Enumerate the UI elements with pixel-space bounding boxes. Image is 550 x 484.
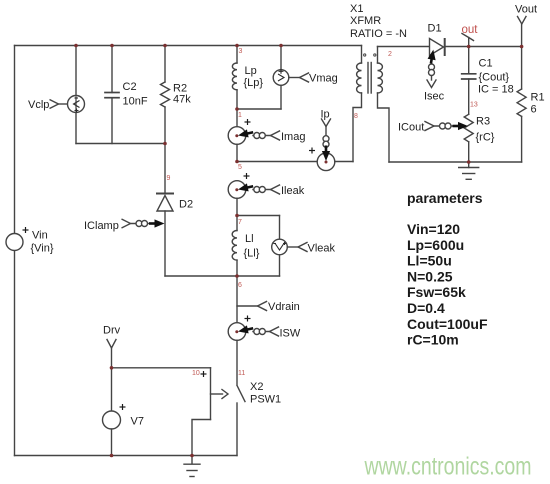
svg-text:2: 2 [388, 51, 392, 58]
inductor Ll top lead [236, 216, 238, 231]
current probe ICout icon [425, 122, 434, 131]
svg-text:Cout=100uF: Cout=100uF [407, 316, 488, 332]
svg-text:Isec: Isec [424, 91, 445, 103]
probe Vclp attach [50, 100, 59, 109]
wire secondary bottom [378, 93, 390, 162]
resistor R2 bottom lead [164, 107, 166, 144]
svg-text:Vdrain: Vdrain [268, 301, 300, 313]
svg-text:8: 8 [354, 113, 358, 120]
current sensor ISW circle [228, 323, 246, 341]
probe Vclp V-glyph [75, 97, 77, 112]
probe Vleak attach [287, 246, 298, 248]
current probe ISW icon [253, 331, 270, 333]
junction top rail / C2 [110, 44, 114, 48]
svg-text:13: 13 [470, 102, 478, 109]
svg-text:3: 3 [239, 48, 243, 55]
resistor R2 zigzag [161, 82, 170, 107]
svg-text:X2: X2 [250, 381, 263, 393]
wire bottom rail [15, 455, 238, 457]
wire top rail [15, 45, 362, 47]
svg-text:10: 10 [192, 370, 200, 377]
svg-text:Drv: Drv [103, 325, 121, 337]
resistor R1 bottom lead [521, 116, 523, 162]
svg-text:Ileak: Ileak [281, 185, 305, 197]
diode D1 cathode bar [444, 39, 446, 55]
svg-text:1: 1 [238, 112, 242, 119]
svg-text:out: out [462, 24, 479, 36]
wire D1 to out [445, 46, 522, 48]
transformer X1 secondary winding [378, 63, 383, 93]
junction node out / C1 [467, 45, 471, 49]
switch X2 control arrow [211, 393, 223, 395]
svg-text:47k: 47k [173, 94, 191, 106]
current probe Ileak icon [253, 189, 271, 191]
inductor Lp top lead [236, 46, 238, 64]
junction bottom right rail / R3 ground [467, 160, 471, 164]
svg-text:6: 6 [531, 104, 537, 116]
switch X2 contact [237, 386, 245, 402]
svg-text:Vin: Vin [32, 230, 48, 242]
sensor Imag center dot [235, 134, 238, 137]
current sensor Ip circle [317, 153, 335, 171]
wire Ileak to node7 [236, 198, 238, 215]
svg-text:{Cout}: {Cout} [479, 72, 510, 84]
svg-text:ICout: ICout [398, 122, 424, 134]
current probe IClamp arrow [155, 219, 165, 227]
probe Vclp circle [68, 96, 85, 113]
junction node 1 [235, 107, 239, 111]
junction top rail / R2 [163, 44, 167, 48]
svg-text:R3: R3 [476, 116, 490, 128]
svg-text:Ll=50u: Ll=50u [407, 253, 452, 269]
inductor Lp bottom lead [236, 90, 238, 109]
wire switch bottom [236, 403, 238, 456]
resistor R3 bottom lead [468, 142, 470, 162]
probe Drv [107, 340, 116, 349]
junction node 6 [235, 274, 239, 278]
probe Vmag attach [289, 77, 300, 79]
wire bottom right rail [389, 161, 522, 163]
inductor Lp coil [232, 63, 237, 90]
svg-text:7: 7 [238, 219, 242, 226]
svg-text:C1: C1 [479, 58, 493, 70]
wire node6 horizontal [237, 275, 280, 277]
junction top rail / Vmag loop [279, 44, 283, 48]
svg-text:X1: X1 [350, 3, 363, 15]
probe Vmag circle [273, 70, 289, 86]
wire Drv down [111, 348, 113, 411]
sensor ISW center dot [235, 330, 238, 333]
wire Ip right [335, 161, 353, 163]
svg-text:D=0.4: D=0.4 [407, 300, 445, 316]
wire node6 down [236, 276, 238, 322]
svg-text:{Lp}: {Lp} [244, 77, 264, 89]
svg-text:V7: V7 [131, 416, 144, 428]
svg-text:Vmag: Vmag [309, 73, 338, 85]
probe Vleak circle [272, 239, 288, 255]
transformer X1 primary winding [357, 63, 362, 93]
voltage source V1 Vin [6, 234, 23, 251]
wire V7 bottom [111, 429, 113, 456]
probe Vmag V-glyph [278, 74, 284, 81]
junction node 5 [235, 160, 239, 164]
svg-text:D2: D2 [179, 199, 193, 211]
probe Vleak V-glyph [276, 244, 284, 250]
capacitor C1 top lead [468, 47, 470, 74]
capacitor C2 top lead [111, 46, 113, 93]
wire secondary top to D1 [378, 46, 430, 48]
inductor Ll coil [232, 231, 237, 261]
wire out rail down to R1 [521, 47, 523, 90]
wire Imag to node5 [236, 144, 238, 161]
wire Vclp branch vertical [75, 46, 77, 144]
ground right [468, 162, 470, 168]
probe Vleak loop top [279, 216, 281, 240]
node numbers [167, 48, 478, 377]
current sensor Imag arrow [237, 128, 254, 139]
svg-text:PSW1: PSW1 [250, 394, 281, 406]
plus V7 [120, 406, 126, 408]
svg-text:C2: C2 [123, 81, 137, 93]
svg-text:IClamp: IClamp [84, 220, 119, 232]
svg-text:Lp: Lp [245, 65, 257, 77]
probe Vmag loop top [280, 46, 282, 71]
junction bottom rail / V7 [110, 454, 114, 458]
wire primary bottom [353, 93, 362, 162]
probe Vmag loop bottom [280, 85, 282, 109]
wire D2 anode down [164, 211, 166, 276]
svg-text:www.cntronics.com: www.cntronics.com [364, 453, 532, 481]
svg-text:11: 11 [238, 370, 245, 377]
svg-text:RATIO = -N: RATIO = -N [350, 28, 407, 40]
current sensor Ip arrow [322, 151, 330, 161]
diode D2 triangle [157, 196, 173, 212]
svg-text:5: 5 [238, 164, 242, 171]
resistor R3 zigzag [464, 114, 473, 142]
resistor R1 zigzag [517, 89, 526, 116]
plus ISW [245, 318, 251, 320]
transformer X1 phase dot secondary [374, 54, 376, 56]
wire clamp bottom [76, 143, 165, 145]
transformer X1 phase dot primary [364, 54, 366, 56]
capacitor C1 bottom lead [468, 79, 470, 114]
node out marker [468, 38, 470, 47]
current sensor ISW arrow [237, 324, 254, 335]
junction node 7 [235, 214, 239, 218]
voltage source V7 circle [103, 411, 121, 429]
junction node 3 top rail / Lp [235, 44, 239, 48]
wire control box bottom jog [192, 420, 211, 464]
plus Ip [309, 150, 315, 152]
bold arrows group [149, 49, 468, 336]
probe Vdrain attach [237, 305, 258, 307]
current probe Isec icon [431, 62, 433, 80]
transformer X1 primary top lead [361, 46, 363, 64]
plus Vin [23, 229, 29, 231]
plus X2 control [201, 373, 207, 375]
svg-text:N=0.25: N=0.25 [407, 268, 453, 284]
current probe ICout arrow [458, 122, 468, 130]
svg-text:ISW: ISW [280, 328, 301, 340]
plus Ileak [244, 175, 250, 177]
svg-text:Ip: Ip [321, 109, 330, 121]
svg-text:D1: D1 [428, 23, 442, 35]
svg-text:Vin=120: Vin=120 [407, 221, 460, 237]
svg-text:rC=10m: rC=10m [407, 332, 459, 348]
svg-text:Ll: Ll [245, 233, 254, 245]
resistor R2 top lead [164, 46, 166, 83]
svg-text:Imag: Imag [281, 131, 305, 143]
wire control box top [112, 367, 211, 369]
transformer X1 secondary top lead [377, 47, 379, 64]
sensor Ileak center dot [235, 188, 238, 191]
capacitor C2 plates [105, 92, 119, 94]
wire R2 to D2 [164, 144, 166, 194]
svg-text:R1: R1 [531, 92, 545, 104]
current sensor Ileak arrow [237, 182, 254, 193]
junction top rail / Vclp [74, 44, 78, 48]
ground left [184, 463, 200, 465]
svg-text:Vout: Vout [515, 4, 537, 16]
probe Vout [518, 17, 527, 25]
svg-text:10nF: 10nF [123, 96, 148, 108]
sensor Ip center dot [325, 161, 328, 164]
svg-text:XFMR: XFMR [350, 15, 381, 27]
current probe Isec arrow [427, 49, 438, 64]
wire node5 horizontal [237, 161, 317, 163]
diode D1 triangle [430, 39, 444, 56]
diode D2 cathode bar [157, 193, 173, 195]
probe Vleak loop bottom [279, 255, 281, 276]
wire left rail [14, 46, 16, 456]
junction out rail / Vout R1 [520, 45, 524, 49]
probe IClamp icon [50, 100, 150, 229]
plus Imag [245, 121, 251, 123]
wire node7 horizontal [237, 215, 280, 217]
transformer X1 core [367, 63, 369, 94]
svg-text:parameters: parameters [407, 190, 483, 206]
wire node1 horizontal [237, 108, 281, 110]
svg-text:Fsw=65k: Fsw=65k [407, 284, 466, 300]
svg-text:6: 6 [238, 282, 242, 289]
capacitor C2 bottom lead [111, 98, 113, 144]
svg-text:{Vin}: {Vin} [31, 243, 54, 255]
current sensor Imag circle [228, 127, 246, 145]
wire control box right [210, 368, 212, 420]
wire Lp to Imag [236, 109, 238, 127]
capacitor C1 plates [462, 73, 476, 75]
plus sign marks [23, 119, 316, 410]
wire D2 to node6 [165, 275, 237, 277]
probe interior marks [74, 69, 287, 250]
svg-text:{rC}: {rC} [476, 132, 495, 144]
junction bottom rail / ground stub [190, 454, 194, 458]
current probe Imag icon [253, 135, 271, 137]
svg-text:9: 9 [167, 175, 171, 182]
inductor Ll bottom lead [236, 260, 238, 276]
svg-text:{Ll}: {Ll} [244, 248, 260, 260]
svg-text:Lp=600u: Lp=600u [407, 237, 464, 253]
svg-text:Vleak: Vleak [308, 243, 336, 255]
junction Drv / gate wire [110, 366, 114, 370]
wire ISW to switch [236, 340, 238, 384]
current probe Ip icon [325, 127, 327, 148]
svg-text:IC = 18: IC = 18 [478, 84, 514, 96]
parameters block [407, 190, 488, 348]
svg-text:Vclp: Vclp [28, 99, 49, 111]
junction clamp bottom / D2 [163, 142, 167, 146]
current sensor Ileak circle [228, 181, 246, 199]
